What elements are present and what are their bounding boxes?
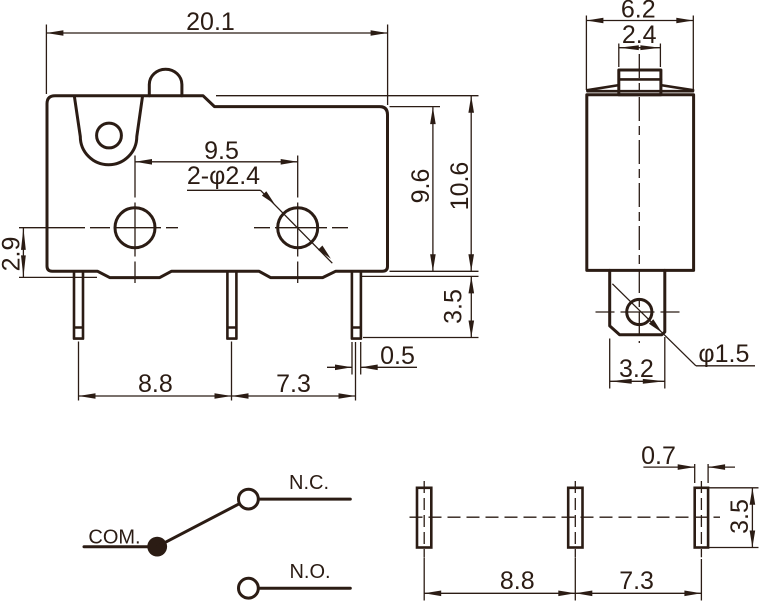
schematic N.O. contact circle [239,578,259,598]
schematic N.O. wire [259,587,351,590]
bottom view pin B [568,488,582,548]
dimension 9.6 [390,106,441,108]
bottom view pin A center dash [423,481,425,557]
side view cap line [588,90,693,93]
side view terminal pin [610,270,665,334]
dimension 2.9 [19,276,97,278]
svg-text:9.5: 9.5 [204,137,239,165]
front view mounting hole 1 [115,208,155,248]
svg-text:10.6: 10.6 [446,162,474,211]
schematic N.C. wire [259,498,351,501]
svg-text:8.8: 8.8 [138,370,173,398]
svg-text:2.9: 2.9 [0,237,26,272]
hole 2 horizontal center line [254,227,350,229]
svg-text:7.3: 7.3 [619,567,654,595]
svg-text:3.5: 3.5 [440,289,468,324]
schematic lever wire [157,504,239,547]
dimension 8.8 / 7.3 front [78,342,80,401]
dimension 3.2 [609,339,611,389]
hole 2 vertical center line [297,156,299,284]
schematic COM wire [84,545,157,548]
front view mounting hole 2 [278,208,318,248]
front view pin 2 [227,272,236,339]
dimension 0.7 [694,464,696,483]
front view pin 3 [352,272,361,339]
svg-text:3.2: 3.2 [619,355,654,383]
side view vertical center line [638,54,640,343]
svg-text:9.6: 9.6 [407,169,435,204]
dimension 0.5 [351,342,353,375]
dimension 6.2 [585,16,587,91]
bottom view horizontal center line [410,516,721,518]
side view cap shoulder left [587,85,619,90]
svg-text:φ1.5: φ1.5 [698,340,749,368]
dimension 9.5 [135,161,298,163]
side view pin hole phi1.5 [627,299,652,324]
svg-text:20.1: 20.1 [186,8,235,36]
svg-text:8.8: 8.8 [500,567,535,595]
hole 1 vertical center line [134,156,136,284]
front view body outline [47,69,388,277]
front view pin 1 [74,272,83,339]
dimension phi1.5 leader [612,284,696,366]
bottom view pin B center dash [574,481,576,557]
dimension 2.4 [618,44,620,68]
side view horizontal center line [596,311,682,313]
schematic COM contact dot [147,537,167,557]
svg-text:COM.: COM. [88,527,140,549]
dimension 3.5 right side [362,275,479,277]
side view body [587,95,694,271]
svg-text:0.7: 0.7 [641,442,676,470]
svg-text:N.O.: N.O. [289,561,330,583]
svg-text:2.4: 2.4 [622,21,657,49]
dimension 3.5 bottom view [709,487,759,489]
bottom view pin C center dash [700,481,702,557]
svg-text:6.2: 6.2 [621,0,656,24]
bottom view pin C [695,488,708,548]
front view top edge under button [149,94,182,97]
side view cap shoulder right [661,85,693,90]
svg-text:0.5: 0.5 [380,342,415,370]
front view lug hole [97,123,122,148]
schematic N.C. contact circle [239,489,259,509]
side view button [619,70,661,95]
bottom view pin A [417,488,431,548]
dimension 20.1 [45,25,47,95]
front view mounting lug [75,97,143,165]
side view button inner line [619,78,661,81]
dimension 8.8 / 7.3 bottom view [423,558,425,601]
svg-text:2-φ2.4: 2-φ2.4 [187,162,260,190]
svg-text:3.5: 3.5 [726,499,754,534]
svg-text:N.C.: N.C. [289,472,329,494]
dimension 10.6 [216,95,479,97]
svg-text:7.3: 7.3 [276,370,311,398]
hole 1 horizontal center line [19,227,178,229]
